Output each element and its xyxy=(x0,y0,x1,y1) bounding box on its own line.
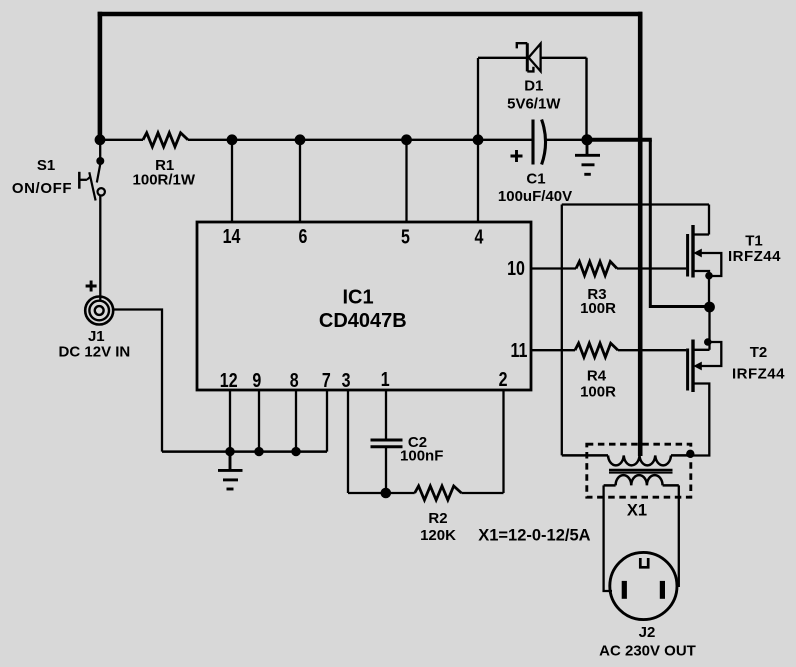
svg-text:8: 8 xyxy=(290,369,299,391)
transformer X1 dashed box xyxy=(587,444,691,497)
wire: R4 to T2 gate xyxy=(618,349,686,351)
svg-text:9: 9 xyxy=(252,369,261,391)
svg-text:D1: D1 xyxy=(524,78,543,95)
svg-text:12: 12 xyxy=(220,369,238,391)
node: C2/R2 junction xyxy=(381,488,392,499)
wire: thick left drop to S1 node xyxy=(98,12,103,140)
IC U1 CD4047B box xyxy=(197,222,531,390)
wire: thick center-tap drop to transformer X1 xyxy=(638,12,643,456)
resistor R1 xyxy=(143,133,188,147)
wire: secondary right lead to J2 xyxy=(678,485,680,587)
transformer X1 core xyxy=(609,470,673,473)
svg-text:6: 6 xyxy=(299,225,308,247)
svg-text:X1: X1 xyxy=(627,502,647,520)
wire: pin 8 stub xyxy=(295,390,297,452)
node: T1 source / ground node xyxy=(704,302,715,313)
wire: pin 7 stub xyxy=(326,390,328,452)
svg-text:J2: J2 xyxy=(639,624,656,641)
node: pin6 rail junction xyxy=(295,134,306,145)
wire: pin 12 stub xyxy=(229,390,231,452)
capacitor C2 xyxy=(371,440,403,447)
svg-text:J1: J1 xyxy=(88,328,105,345)
svg-text:100R: 100R xyxy=(580,384,616,401)
svg-text:T2: T2 xyxy=(750,344,768,361)
wire: VDD rail mid segment xyxy=(188,139,533,141)
svg-text:IRFZ44: IRFZ44 xyxy=(732,366,785,383)
wire: R2 to pin 2 xyxy=(461,492,503,494)
wire: drop from rail to T1 source node xyxy=(650,140,707,307)
label: C1 plus sign xyxy=(511,150,523,162)
wire: J1 to ground bus xyxy=(113,310,162,452)
svg-text:120K: 120K xyxy=(420,527,456,544)
svg-text:3: 3 xyxy=(342,369,351,391)
wire: pin 14 stub xyxy=(231,140,233,222)
zener diode D1 xyxy=(478,43,587,140)
svg-text:11: 11 xyxy=(511,339,528,361)
connector J1 (DC jack) xyxy=(85,297,113,325)
wire: VDD rail left segment xyxy=(100,139,143,141)
wire: pin3 node to R2 xyxy=(348,492,415,494)
wire: thick segment ground node to T-drop xyxy=(587,138,652,142)
node: pin5 rail junction xyxy=(401,134,412,145)
svg-text:R2: R2 xyxy=(428,510,447,527)
wire: R3 to T1 gate xyxy=(617,267,686,269)
wire: pin 5 stub xyxy=(405,140,407,222)
wire: pin 9 stub xyxy=(258,390,260,452)
svg-text:X1=12-0-12/5A: X1=12-0-12/5A xyxy=(478,527,590,545)
svg-text:IRFZ44: IRFZ44 xyxy=(728,248,781,265)
wire: pin 3 drop xyxy=(347,390,349,493)
svg-text:IC1: IC1 xyxy=(342,287,373,309)
wire: S1 to J1 xyxy=(99,196,101,301)
svg-text:100R: 100R xyxy=(580,300,616,317)
wire: pin 6 stub xyxy=(299,140,301,222)
svg-text:7: 7 xyxy=(322,369,331,391)
resistor R2 xyxy=(415,486,462,500)
wire: ground bus under IC xyxy=(162,450,327,453)
wire: VDD rail right segment (C1 to ground node) xyxy=(547,139,588,141)
svg-text:T1: T1 xyxy=(745,233,763,250)
node: pin9 bus junction xyxy=(254,447,263,456)
node: pin4/D1 rail junction xyxy=(473,134,484,145)
transformer X1 primary winding xyxy=(562,455,690,465)
node: pin12 bus junction xyxy=(225,447,234,456)
svg-text:100nF: 100nF xyxy=(400,448,443,465)
node: pin14 rail junction xyxy=(227,134,238,145)
svg-text:ON/OFF: ON/OFF xyxy=(12,180,72,197)
wire: +12V thick top bus xyxy=(98,12,643,17)
node: C1/ground rail junction xyxy=(581,134,592,145)
svg-text:5V6/1W: 5V6/1W xyxy=(507,96,561,113)
svg-text:1: 1 xyxy=(381,368,390,390)
resistor R4 xyxy=(575,343,618,357)
svg-text:100R/1W: 100R/1W xyxy=(133,172,196,189)
svg-text:C1: C1 xyxy=(526,171,545,188)
svg-text:S1: S1 xyxy=(37,157,55,174)
svg-text:100uF/40V: 100uF/40V xyxy=(498,188,572,205)
capacitor C1 (polarized) xyxy=(533,120,546,165)
svg-text:R4: R4 xyxy=(587,368,607,385)
wire: secondary left lead to J2 xyxy=(604,485,612,591)
svg-text:5: 5 xyxy=(401,226,410,248)
switch S1 xyxy=(79,157,105,201)
wire: rail junction to S1 xyxy=(99,140,101,161)
svg-text:10: 10 xyxy=(507,257,525,279)
svg-text:CD4047B: CD4047B xyxy=(319,310,407,332)
svg-text:DC 12V IN: DC 12V IN xyxy=(59,344,131,361)
connector J2 (AC socket) xyxy=(610,552,677,619)
transistor T1 IRFZ44 (N-MOSFET) xyxy=(688,205,722,308)
wire: pin 4 stub + D1 left lead riser xyxy=(477,58,479,222)
node: S1/rail junction xyxy=(95,134,106,145)
wire: pin 11 to R4 xyxy=(531,349,575,351)
wire: T1 drain to transformer primary top xyxy=(562,203,709,205)
svg-text:2: 2 xyxy=(499,368,508,390)
resistor R3 xyxy=(576,262,617,276)
wire: pin 2 drop xyxy=(502,390,504,493)
transistor T2 IRFZ44 (N-MOSFET, mirrored) xyxy=(686,307,721,458)
ground (IC bus) xyxy=(218,452,243,489)
label: J1 plus sign xyxy=(86,281,97,292)
wire: C2 to R2 node xyxy=(385,447,387,493)
transformer X1 secondary winding xyxy=(604,475,679,485)
svg-text:4: 4 xyxy=(475,226,484,248)
wire: T1 drain drop to primary left xyxy=(561,205,563,456)
ground (C1) xyxy=(575,140,600,175)
svg-text:14: 14 xyxy=(223,225,241,247)
wire: pin 10 to R3 xyxy=(531,267,576,269)
svg-text:AC 230V OUT: AC 230V OUT xyxy=(599,643,696,660)
node: pin8 bus junction xyxy=(291,447,300,456)
wire: pin 1 to C2 xyxy=(385,390,387,440)
